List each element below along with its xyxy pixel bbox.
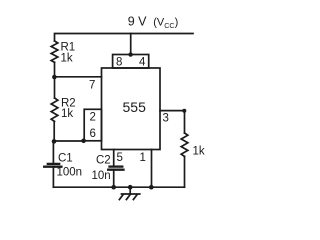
ground symbol [119,187,139,199]
wire: node B to pin box 2/6 [54,140,84,142]
svg-text:2: 2 [90,112,96,124]
node: junction at pin box 8/4 [128,52,132,56]
svg-text:6: 6 [90,128,96,140]
svg-text:4: 4 [139,57,146,69]
node: junction at pin box 2/6 corner [81,139,86,144]
wire: pin 5 to C2 [113,150,115,167]
svg-text:8: 8 [116,57,122,69]
svg-text:1k: 1k [61,53,73,65]
wire: ground rail (bottom) [53,186,184,188]
wire: pin 1 to ground rail [151,150,153,188]
wire: C1 to ground rail [52,168,54,188]
node: ground stem at rail [128,185,133,190]
svg-text:3: 3 [163,113,169,125]
capacitor C2 [108,167,123,170]
wire: R2 to node B [53,121,55,141]
wire: rail drop to pins 8/4 [130,34,132,55]
resistor R1 [51,41,58,62]
svg-text:1k: 1k [61,108,73,120]
capacitor C1 [44,164,61,167]
resistor RL 1k (output load) [181,133,188,156]
wire: +9V supply rail [55,34,194,42]
svg-text:5: 5 [117,152,123,164]
node: C2 at ground rail [111,185,116,190]
wire: C2 to ground rail [113,170,115,187]
node B: junction R2/C1/pins 2-6 [52,139,57,144]
node: pin 3 corner [182,109,186,113]
svg-text:7: 7 [89,80,95,92]
pin box pins 2/6 [84,109,101,141]
svg-text:1k: 1k [193,146,205,158]
svg-text:C1: C1 [58,153,73,165]
wire: RL to ground rail [184,156,186,187]
IC U1 555 body [102,68,161,150]
resistor R2 [51,98,58,121]
svg-text:C2: C2 [96,155,111,167]
svg-text:1: 1 [140,152,146,164]
svg-text:10n: 10n [92,170,111,182]
wire: node A to R2 [54,77,56,98]
wire: node A to pin 7 [55,76,102,78]
wire: pin 3 output [160,111,185,133]
pin box pins 8/4 [113,55,149,69]
wire: R1 to node A [54,62,56,77]
node: pin 1 at ground rail [149,185,154,190]
wire: node B to C1 [52,141,54,163]
node A: junction R1/R2/pin7 [52,75,57,80]
svg-text:555: 555 [123,99,147,115]
svg-text:100n: 100n [57,167,83,179]
